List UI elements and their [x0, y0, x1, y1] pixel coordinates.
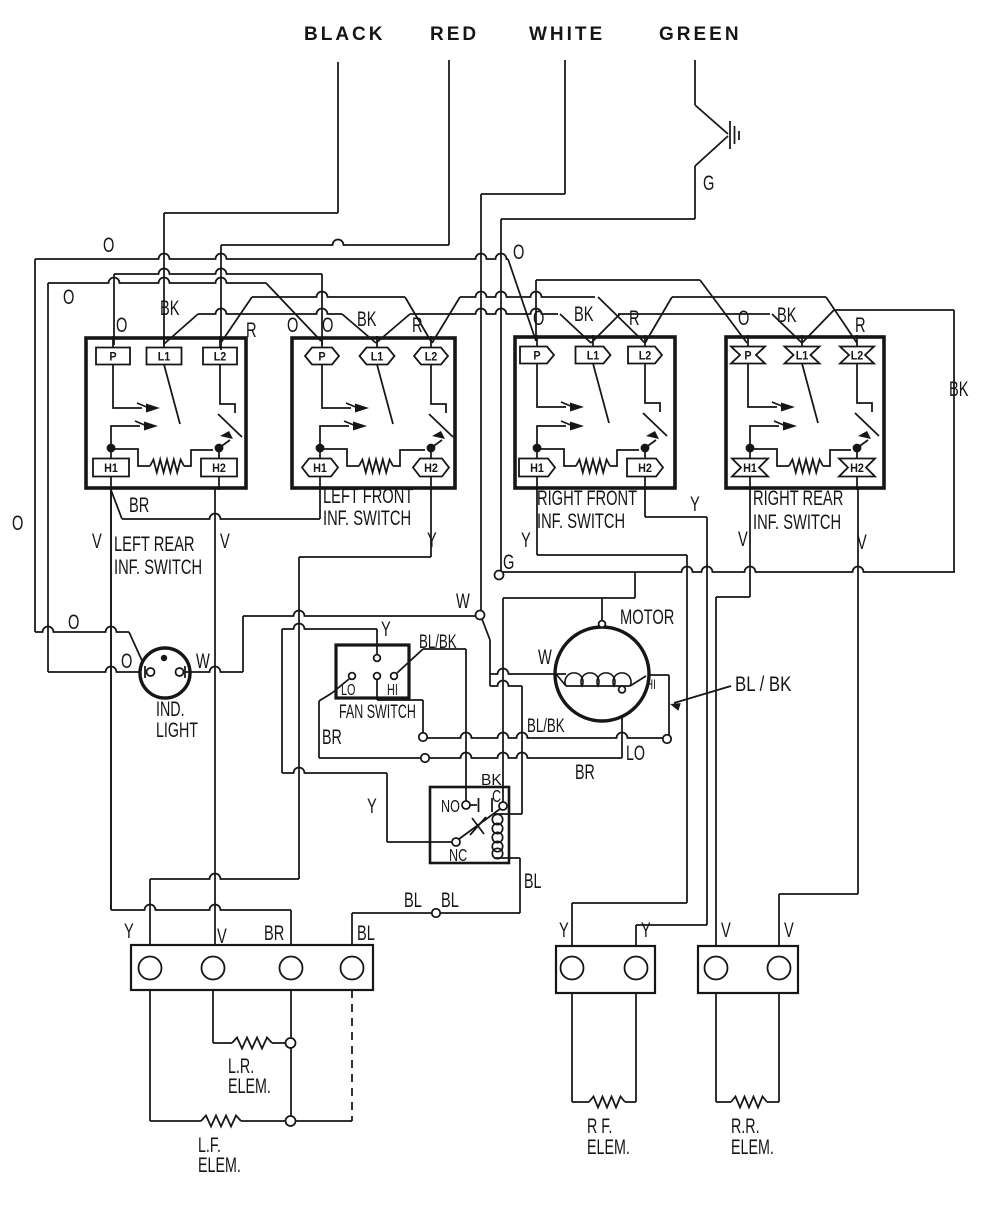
svg-text:ELEM.: ELEM.: [731, 1135, 774, 1158]
svg-text:BR: BR: [129, 492, 149, 517]
svg-text:BK: BK: [481, 772, 502, 789]
svg-text:Y: Y: [521, 527, 531, 552]
svg-text:O: O: [513, 239, 524, 264]
svg-text:BK: BK: [777, 302, 797, 327]
svg-text:Y: Y: [690, 491, 700, 516]
svg-text:BL: BL: [441, 887, 459, 912]
svg-text:HI: HI: [387, 681, 398, 698]
svg-text:O: O: [121, 648, 132, 673]
svg-text:H1: H1: [530, 462, 544, 475]
svg-text:C: C: [492, 787, 501, 807]
svg-text:P: P: [109, 351, 117, 364]
svg-text:BL: BL: [404, 887, 422, 912]
svg-text:BL / BK: BL / BK: [735, 673, 792, 696]
svg-text:P: P: [533, 350, 541, 363]
svg-text:RIGHT FRONT: RIGHT FRONT: [537, 486, 637, 509]
svg-text:H2: H2: [424, 462, 438, 475]
svg-text:R: R: [629, 305, 640, 330]
svg-text:BLACK: BLACK: [304, 24, 386, 45]
svg-text:L2: L2: [851, 350, 864, 363]
svg-text:V: V: [220, 528, 230, 553]
svg-text:Y: Y: [381, 616, 391, 641]
svg-text:LEFT REAR: LEFT REAR: [114, 532, 195, 555]
svg-text:G: G: [703, 170, 714, 195]
svg-text:H1: H1: [743, 462, 757, 475]
svg-text:LEFT FRONT: LEFT FRONT: [323, 484, 413, 507]
svg-text:ELEM.: ELEM.: [228, 1074, 271, 1097]
svg-text:INF. SWITCH: INF. SWITCH: [537, 509, 625, 532]
svg-text:V: V: [784, 917, 794, 942]
svg-text:L2: L2: [425, 351, 438, 364]
svg-text:W: W: [538, 644, 552, 669]
svg-text:BL/BK: BL/BK: [419, 632, 457, 653]
svg-text:V: V: [217, 923, 227, 948]
svg-text:MOTOR: MOTOR: [620, 605, 674, 628]
svg-text:BL/BK: BL/BK: [527, 716, 565, 737]
svg-text:P: P: [318, 351, 326, 364]
svg-text:GREEN: GREEN: [659, 24, 742, 45]
svg-text:W: W: [456, 588, 470, 613]
svg-text:INF. SWITCH: INF. SWITCH: [323, 506, 411, 529]
svg-text:G: G: [503, 549, 514, 574]
svg-text:BK: BK: [357, 306, 377, 331]
svg-text:RED: RED: [430, 24, 479, 45]
svg-text:L1: L1: [796, 350, 809, 363]
svg-text:R: R: [855, 312, 866, 337]
svg-text:L1: L1: [587, 350, 600, 363]
svg-text:O: O: [103, 232, 114, 257]
svg-text:R.R.: R.R.: [731, 1114, 760, 1137]
svg-text:BK: BK: [574, 301, 594, 326]
svg-text:BR: BR: [575, 760, 595, 783]
svg-text:L2: L2: [214, 351, 227, 364]
svg-text:L1: L1: [371, 351, 384, 364]
svg-text:H2: H2: [638, 462, 652, 475]
svg-text:V: V: [721, 917, 731, 942]
svg-text:ELEM.: ELEM.: [587, 1135, 630, 1158]
svg-text:Y: Y: [427, 527, 437, 552]
svg-text:Y: Y: [641, 917, 651, 942]
svg-text:H2: H2: [850, 462, 864, 475]
svg-text:V: V: [738, 526, 748, 551]
svg-text:R F.: R F.: [587, 1114, 612, 1137]
svg-text:O: O: [63, 284, 74, 309]
svg-text:W: W: [196, 648, 210, 673]
svg-text:Y: Y: [367, 793, 377, 818]
svg-text:Y: Y: [124, 918, 134, 943]
svg-text:P: P: [744, 350, 752, 363]
svg-text:R: R: [412, 312, 423, 337]
svg-text:BK: BK: [949, 376, 969, 401]
svg-text:BL: BL: [524, 869, 541, 892]
svg-text:FAN SWITCH: FAN SWITCH: [339, 701, 416, 722]
svg-text:O: O: [322, 312, 333, 337]
svg-text:V: V: [92, 528, 102, 553]
svg-text:H2: H2: [212, 462, 226, 475]
svg-text:O: O: [68, 609, 79, 634]
svg-text:LO: LO: [626, 741, 645, 764]
svg-text:NO: NO: [441, 797, 460, 817]
svg-text:BL: BL: [357, 920, 375, 945]
svg-text:L1: L1: [158, 351, 171, 364]
svg-text:BR: BR: [264, 920, 284, 945]
svg-text:O: O: [12, 510, 23, 535]
svg-text:O: O: [738, 305, 749, 330]
svg-text:LIGHT: LIGHT: [156, 718, 198, 741]
svg-text:RIGHT REAR: RIGHT REAR: [753, 486, 843, 509]
svg-text:BR: BR: [322, 725, 342, 748]
svg-text:O: O: [533, 305, 544, 330]
svg-text:INF. SWITCH: INF. SWITCH: [114, 555, 202, 578]
svg-text:Y: Y: [559, 917, 569, 942]
svg-text:ELEM.: ELEM.: [198, 1153, 241, 1176]
svg-text:BK: BK: [160, 295, 180, 320]
svg-text:IND.: IND.: [156, 697, 185, 720]
svg-text:H1: H1: [313, 462, 327, 475]
svg-text:NC: NC: [449, 846, 467, 866]
svg-text:INF. SWITCH: INF. SWITCH: [753, 510, 841, 533]
svg-text:O: O: [287, 312, 298, 337]
svg-text:H1: H1: [104, 462, 118, 475]
svg-text:WHITE: WHITE: [529, 24, 605, 45]
svg-text:HI: HI: [646, 676, 656, 692]
svg-text:L2: L2: [639, 350, 652, 363]
svg-text:O: O: [116, 312, 127, 337]
